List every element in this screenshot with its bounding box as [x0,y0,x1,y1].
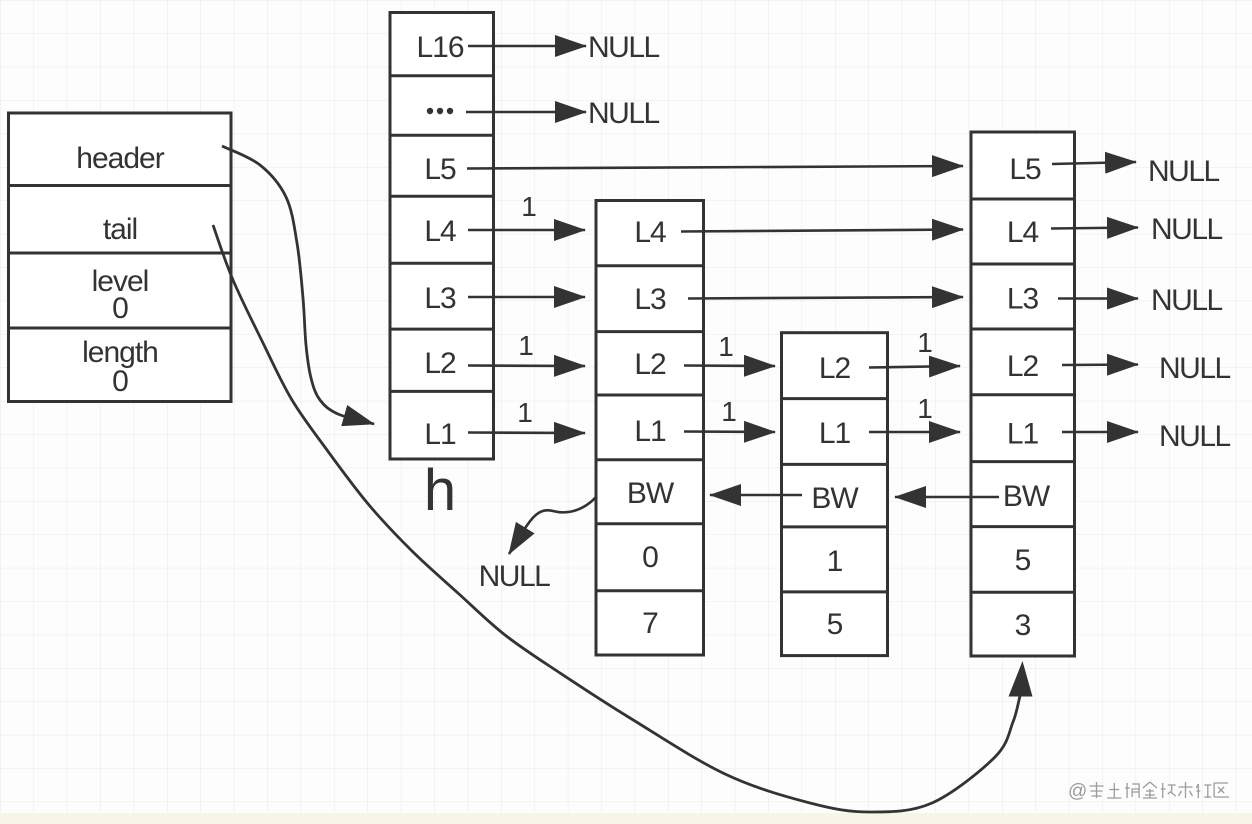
svg-text:L1: L1 [424,418,456,451]
wire h L4 -> node1 L4 [468,229,585,232]
svg-text:L4: L4 [1007,216,1039,249]
wavy wire node1 BW -> NULL [509,497,596,554]
h divider L4/L3 [390,262,494,265]
node3 column (score 3) [971,132,1075,656]
svg-text:L5: L5 [1009,153,1041,186]
n1 divider L3/L2 [596,330,704,333]
wire node1 L1 -> node2 L1 [684,430,775,433]
n3 divider L2/L1 [971,393,1075,396]
svg-text:BW: BW [627,477,675,510]
svg-text:3: 3 [1015,609,1031,642]
svg-text:1: 1 [517,397,533,428]
svg-text:0: 0 [112,365,128,398]
svg-text:L1: L1 [1007,418,1039,451]
h divider L5/L4 [390,195,494,198]
svg-text:NULL: NULL [1159,352,1231,385]
wire h L1 -> node1 L1 [468,431,585,434]
svg-text:1: 1 [721,396,737,427]
svg-text:NULL: NULL [479,560,551,593]
svg-text:NULL: NULL [1159,420,1231,453]
n3 divider 5/3 [971,591,1075,594]
svg-text:L4: L4 [634,216,666,249]
svg-text:L5: L5 [424,153,456,186]
wire node1 L3 -> node3 L3 [688,297,963,299]
wire h L16 -> NULL [468,45,586,48]
wire node3 L3 -> NULL [1058,297,1138,300]
svg-text:@: @ [1068,781,1087,802]
n2 divider BW/1 [782,525,888,528]
wire h L2 -> node1 L2 [468,364,585,367]
wire node3 BW -> node2 BW [895,496,999,499]
svg-text:1: 1 [718,331,734,362]
svg-text:1: 1 [521,191,537,222]
svg-text:1: 1 [827,545,843,578]
wire node2 L1 -> node3 L1 [869,431,960,434]
svg-text:L2: L2 [634,348,666,381]
svg-text:tail: tail [103,213,137,246]
n2 divider 1/5 [782,590,888,593]
svg-text:L16: L16 [416,31,463,64]
wire node1 L4 -> node3 L4 [681,230,963,232]
wire h L5 -> node3 L5 [467,166,963,169]
n1 divider 0/7 [596,589,704,592]
zskiplist struct box [9,113,232,402]
svg-text:L3: L3 [1007,283,1039,316]
svg-text:0: 0 [642,541,658,574]
svg-text:7: 7 [642,607,658,640]
curved wire tail -> node3 bottom [213,225,1021,812]
divider level/length [9,327,232,330]
n3 divider L4/L3 [971,263,1075,266]
n1 divider L4/L3 [596,264,704,267]
svg-text:5: 5 [1015,544,1031,577]
divider tail/level [9,252,232,255]
n1 divider L2/L1 [596,394,704,397]
svg-text:NULL: NULL [1151,213,1223,246]
svg-text:NULL: NULL [588,31,660,64]
h divider L3/L2 [390,328,494,331]
svg-text:BW: BW [811,482,859,515]
svg-text:NULL: NULL [1151,284,1223,317]
node2 column (score 5) [782,333,888,656]
n3 divider L3/L2 [971,328,1075,331]
svg-text:L2: L2 [819,352,851,385]
watermark [1068,781,1229,802]
h cell dots [427,108,433,114]
curved wire header -> h column L1 [222,146,374,424]
svg-text:1: 1 [917,327,933,358]
svg-text:NULL: NULL [588,97,660,130]
svg-text:1: 1 [917,393,933,424]
wire node3 L4 -> NULL [1051,228,1138,229]
n2 divider L1/BW [782,463,888,466]
wire h dots -> NULL [466,111,586,114]
bottom cream strip [0,813,1252,824]
wire node1 L2 -> node2 L2 [684,364,775,367]
n1 divider BW/0 [596,522,704,525]
svg-text:header: header [76,142,164,175]
wire node2 BW -> node1 BW [710,494,802,497]
wire node3 L1 -> NULL [1062,431,1138,434]
n1 divider L1/BW [596,458,704,461]
svg-text:L4: L4 [424,215,456,248]
svg-text:L2: L2 [424,347,456,380]
svg-text:L1: L1 [634,415,666,448]
n3 divider BW/5 [971,525,1075,528]
svg-text:L3: L3 [634,283,666,316]
h divider .../L5 [390,134,494,137]
svg-text:h: h [424,458,456,523]
svg-text:L2: L2 [1007,350,1039,383]
n2 divider L2/L1 [782,397,888,400]
svg-text:5: 5 [827,608,843,641]
n3 divider L1/BW [971,460,1075,463]
wire h L3 -> node1 L3 [468,296,585,299]
svg-text:L1: L1 [819,417,851,450]
svg-text:NULL: NULL [1148,155,1220,188]
h column outer box [390,13,494,460]
wire node3 L2 -> NULL [1062,363,1138,366]
svg-text:1: 1 [518,330,534,361]
h divider L16/... [390,74,494,77]
svg-text:L3: L3 [424,282,456,315]
divider header/tail [9,184,232,187]
h divider L2/L1 [390,390,494,393]
arrowhead into node3 bottom [1009,661,1033,697]
node1 column (score 7) [596,201,704,656]
wire node2 L2 -> node3 L2 [869,366,960,368]
n3 divider L5/L4 [971,198,1075,201]
svg-text:0: 0 [112,292,128,325]
svg-text:BW: BW [1003,480,1051,513]
wire node3 L5 -> NULL [1052,162,1136,164]
